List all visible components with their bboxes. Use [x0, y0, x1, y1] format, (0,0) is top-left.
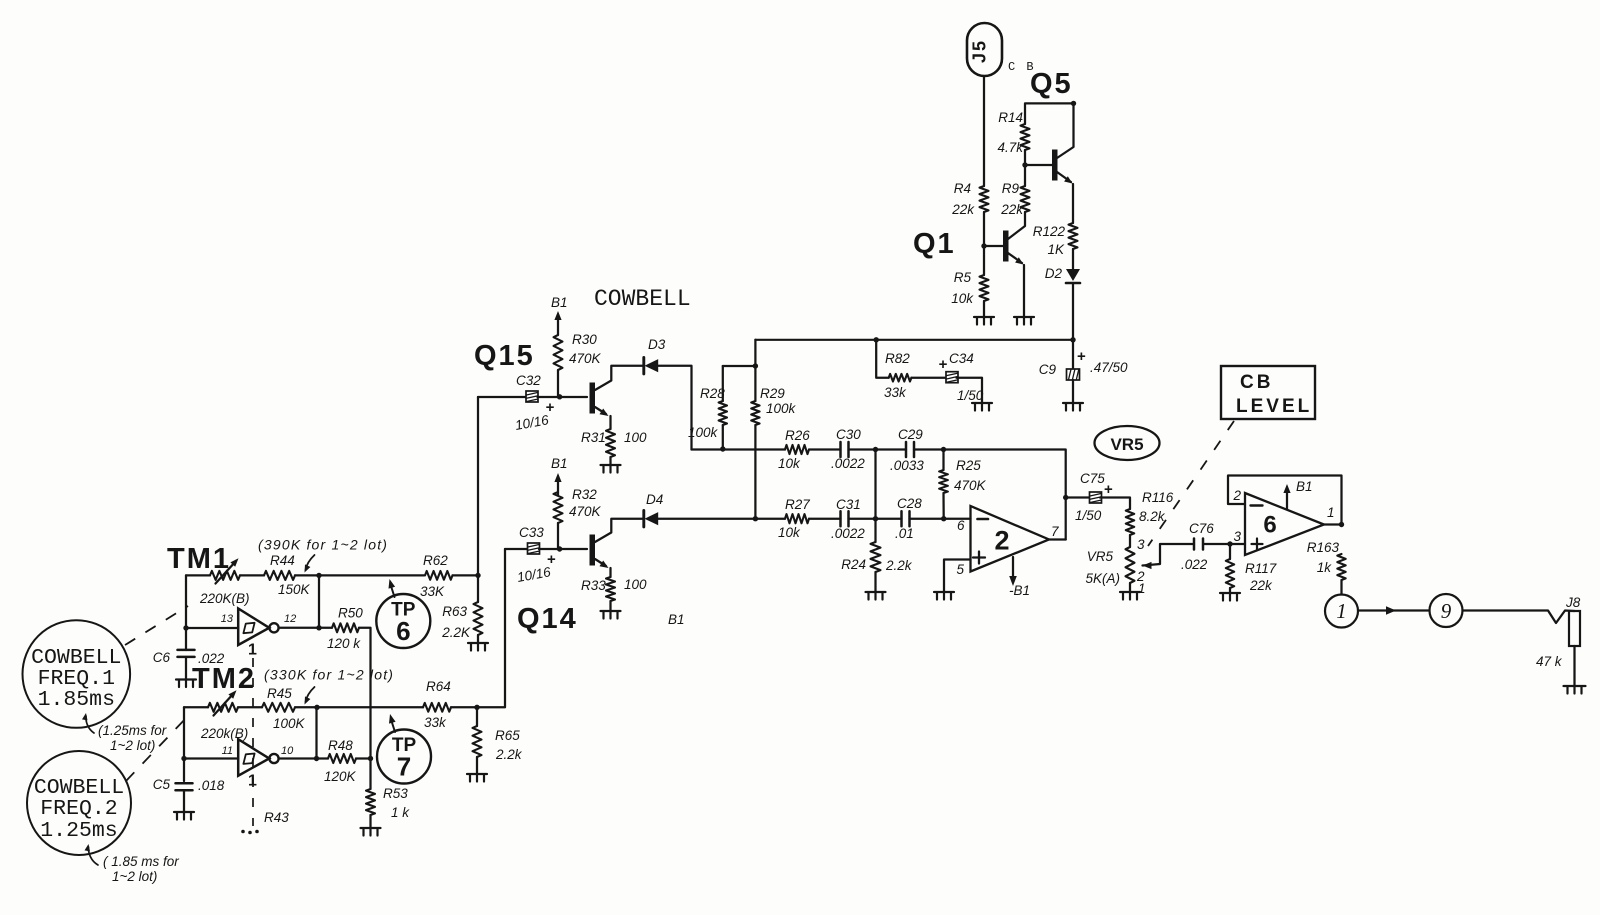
svg-text:C76: C76: [1189, 521, 1214, 536]
svg-text:1: 1: [1327, 505, 1335, 520]
svg-text:C34: C34: [949, 351, 974, 366]
svg-text:R63: R63: [442, 604, 467, 619]
svg-text:C28: C28: [897, 496, 922, 511]
svg-text:B1: B1: [551, 456, 568, 471]
svg-text:CB: CB: [1240, 372, 1273, 393]
svg-text:9: 9: [1441, 599, 1452, 623]
svg-text:R64: R64: [426, 679, 451, 694]
svg-text:R44: R44: [270, 553, 295, 568]
svg-text:C32: C32: [516, 373, 541, 388]
svg-text:2.2k: 2.2k: [495, 747, 523, 762]
svg-text:R24: R24: [841, 557, 866, 572]
svg-text:B1: B1: [668, 612, 685, 627]
svg-text:1/50: 1/50: [957, 388, 984, 403]
svg-text:R14: R14: [998, 110, 1023, 125]
svg-text:R117: R117: [1245, 561, 1277, 576]
svg-text:4.7k: 4.7k: [997, 140, 1024, 155]
svg-text:R65: R65: [495, 728, 520, 743]
svg-text:5K(A): 5K(A): [1085, 571, 1120, 586]
svg-text:1/50: 1/50: [1075, 508, 1102, 523]
svg-text:R116: R116: [1142, 490, 1174, 505]
svg-text:120 k: 120 k: [327, 636, 361, 651]
svg-text:C5: C5: [153, 777, 171, 792]
svg-text:LEVEL: LEVEL: [1236, 396, 1312, 417]
svg-text:47 k: 47 k: [1536, 654, 1563, 669]
svg-text:J8: J8: [1565, 595, 1581, 610]
svg-text:B1: B1: [551, 295, 568, 310]
svg-text:C29: C29: [898, 427, 923, 442]
svg-text:.018: .018: [198, 778, 225, 793]
svg-text:-B1: -B1: [1009, 583, 1030, 598]
svg-text:(390K for 1~2 lot): (390K for 1~2 lot): [258, 537, 388, 553]
svg-text:R30: R30: [572, 332, 597, 347]
svg-text:11: 11: [222, 745, 233, 757]
svg-text:Q15: Q15: [474, 340, 535, 372]
svg-text:6: 6: [396, 616, 410, 646]
svg-text:TM2: TM2: [192, 663, 256, 695]
svg-text:C31: C31: [836, 497, 861, 512]
svg-text:.0033: .0033: [890, 458, 924, 473]
svg-text:J5: J5: [970, 39, 990, 63]
svg-text:6: 6: [957, 518, 965, 533]
svg-text:1.25ms: 1.25ms: [40, 819, 117, 843]
svg-text:R9: R9: [1002, 181, 1020, 196]
svg-text:( 1.85 ms for: ( 1.85 ms for: [103, 854, 179, 869]
svg-text:470K: 470K: [954, 478, 987, 493]
svg-text:7: 7: [1051, 524, 1059, 539]
svg-text:R43: R43: [264, 810, 289, 825]
svg-text:2: 2: [1232, 488, 1241, 503]
svg-text:C75: C75: [1080, 471, 1105, 486]
svg-text:R5: R5: [954, 270, 972, 285]
svg-text:D2: D2: [1045, 266, 1063, 281]
svg-text:10k: 10k: [778, 456, 801, 471]
svg-text:100: 100: [624, 577, 647, 592]
svg-text:100: 100: [624, 430, 647, 445]
svg-text:R27: R27: [785, 497, 810, 512]
svg-text:470K: 470K: [569, 351, 602, 366]
svg-text:1.85ms: 1.85ms: [38, 688, 115, 712]
svg-text:C33: C33: [519, 525, 544, 540]
svg-text:(1.25ms for: (1.25ms for: [98, 723, 167, 738]
svg-text:(330K for 1~2 lot): (330K for 1~2 lot): [264, 666, 394, 682]
svg-text:150K: 150K: [278, 582, 311, 597]
svg-text:+: +: [1077, 348, 1086, 365]
svg-text:R33: R33: [581, 578, 606, 593]
svg-text:7: 7: [397, 752, 411, 782]
svg-text:R45: R45: [267, 686, 292, 701]
svg-text:D3: D3: [648, 337, 666, 352]
svg-text:33k: 33k: [424, 715, 447, 730]
svg-text:D4: D4: [646, 492, 663, 507]
svg-text:10k: 10k: [951, 291, 974, 306]
svg-text:R163: R163: [1307, 540, 1340, 555]
svg-text:1: 1: [248, 642, 257, 659]
svg-text:1~2 lot): 1~2 lot): [110, 738, 155, 753]
svg-text:1~2 lot): 1~2 lot): [112, 869, 157, 884]
svg-text:10k: 10k: [778, 525, 801, 540]
svg-text:R28: R28: [700, 386, 725, 401]
svg-text:33k: 33k: [884, 385, 907, 400]
svg-text:220K(B): 220K(B): [199, 591, 250, 606]
svg-text:33K: 33K: [420, 584, 445, 599]
svg-text:12: 12: [284, 613, 296, 625]
svg-text:R4: R4: [954, 181, 971, 196]
svg-text:470K: 470K: [569, 504, 602, 519]
svg-text:2: 2: [994, 526, 1009, 556]
svg-text:COWBELL: COWBELL: [594, 286, 691, 312]
svg-text:2.2K: 2.2K: [441, 625, 471, 640]
svg-text:120K: 120K: [324, 769, 357, 784]
svg-text:R31: R31: [581, 430, 606, 445]
svg-text:C6: C6: [153, 650, 171, 665]
svg-text:1: 1: [1336, 599, 1347, 623]
svg-text:R29: R29: [760, 386, 785, 401]
svg-text:R25: R25: [956, 458, 981, 473]
svg-text:R62: R62: [423, 553, 448, 568]
svg-text:5: 5: [956, 562, 964, 577]
svg-text:2.2k: 2.2k: [885, 558, 913, 573]
svg-text:R26: R26: [785, 428, 810, 443]
svg-text:1k: 1k: [1317, 560, 1333, 575]
svg-text:VR5: VR5: [1087, 549, 1114, 564]
svg-text:Q5: Q5: [1030, 68, 1073, 100]
svg-text:100K: 100K: [273, 716, 306, 731]
svg-text:.022: .022: [1181, 557, 1208, 572]
svg-text:+: +: [939, 356, 948, 373]
svg-text:+: +: [1104, 481, 1113, 498]
svg-text:8.2k: 8.2k: [1139, 509, 1166, 524]
svg-text:3: 3: [1137, 537, 1145, 552]
svg-text:1: 1: [1138, 581, 1146, 596]
svg-text:22k: 22k: [1000, 202, 1024, 217]
svg-text:VR5: VR5: [1110, 435, 1143, 454]
svg-text:C9: C9: [1039, 362, 1057, 377]
svg-text:100k: 100k: [688, 425, 719, 440]
svg-text:6: 6: [1263, 512, 1276, 539]
svg-text:.01: .01: [895, 526, 914, 541]
svg-text:R48: R48: [328, 738, 353, 753]
svg-text:13: 13: [221, 613, 234, 625]
svg-text:1 k: 1 k: [391, 805, 410, 820]
svg-text:.0022: .0022: [831, 456, 865, 471]
svg-text:22k: 22k: [951, 202, 975, 217]
svg-text:R122: R122: [1033, 224, 1066, 239]
svg-text:FREQ.2: FREQ.2: [40, 797, 117, 821]
svg-text:R32: R32: [572, 487, 597, 502]
svg-text:1K: 1K: [1047, 242, 1065, 257]
svg-text:R53: R53: [383, 786, 408, 801]
svg-text:100k: 100k: [766, 401, 797, 416]
svg-text:C30: C30: [836, 427, 861, 442]
svg-text:220k(B): 220k(B): [200, 726, 248, 741]
svg-text:.0022: .0022: [831, 526, 865, 541]
svg-text:Q14: Q14: [517, 603, 578, 635]
svg-text:R50: R50: [338, 606, 363, 621]
svg-text:TM1: TM1: [167, 543, 231, 575]
svg-text:Q1: Q1: [913, 228, 956, 260]
svg-text:B1: B1: [1296, 479, 1313, 494]
svg-text:22k: 22k: [1249, 578, 1273, 593]
svg-text:3: 3: [1233, 529, 1241, 544]
svg-text:10: 10: [281, 745, 294, 757]
svg-text:R82: R82: [885, 351, 910, 366]
svg-text:.47/50: .47/50: [1090, 360, 1128, 375]
